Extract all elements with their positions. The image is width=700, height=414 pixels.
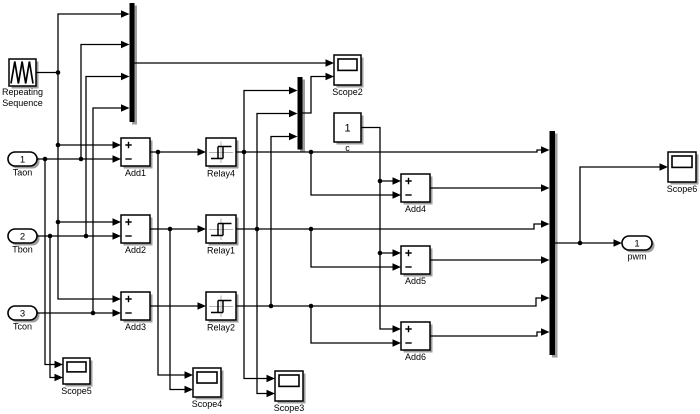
svg-text:1: 1 — [634, 239, 639, 250]
svg-text:2: 2 — [20, 232, 25, 243]
svg-text:Taon: Taon — [13, 167, 33, 177]
svg-text:Scope2: Scope2 — [332, 87, 363, 97]
svg-text:Scope5: Scope5 — [61, 386, 92, 396]
svg-text:Scope3: Scope3 — [274, 403, 305, 413]
svg-text:Tcon: Tcon — [13, 321, 32, 331]
svg-text:Add1: Add1 — [125, 168, 146, 178]
svg-text:Add3: Add3 — [125, 322, 146, 332]
svg-text:1: 1 — [20, 155, 25, 166]
svg-text:3: 3 — [20, 309, 25, 320]
svg-text:Tbon: Tbon — [12, 244, 33, 254]
svg-text:1: 1 — [344, 123, 350, 135]
svg-text:Add5: Add5 — [405, 276, 426, 286]
svg-text:Add2: Add2 — [125, 245, 146, 255]
svg-text:Sequence: Sequence — [2, 98, 43, 108]
svg-text:Relay4: Relay4 — [207, 168, 235, 178]
svg-text:Relay1: Relay1 — [207, 245, 235, 255]
svg-text:Add4: Add4 — [405, 204, 426, 214]
svg-text:Relay2: Relay2 — [207, 322, 235, 332]
svg-text:Repeating: Repeating — [2, 87, 43, 97]
svg-text:Scope6: Scope6 — [667, 184, 698, 194]
svg-text:Scope4: Scope4 — [192, 399, 223, 409]
svg-text:Add6: Add6 — [405, 352, 426, 362]
svg-text:pwm: pwm — [627, 251, 646, 261]
